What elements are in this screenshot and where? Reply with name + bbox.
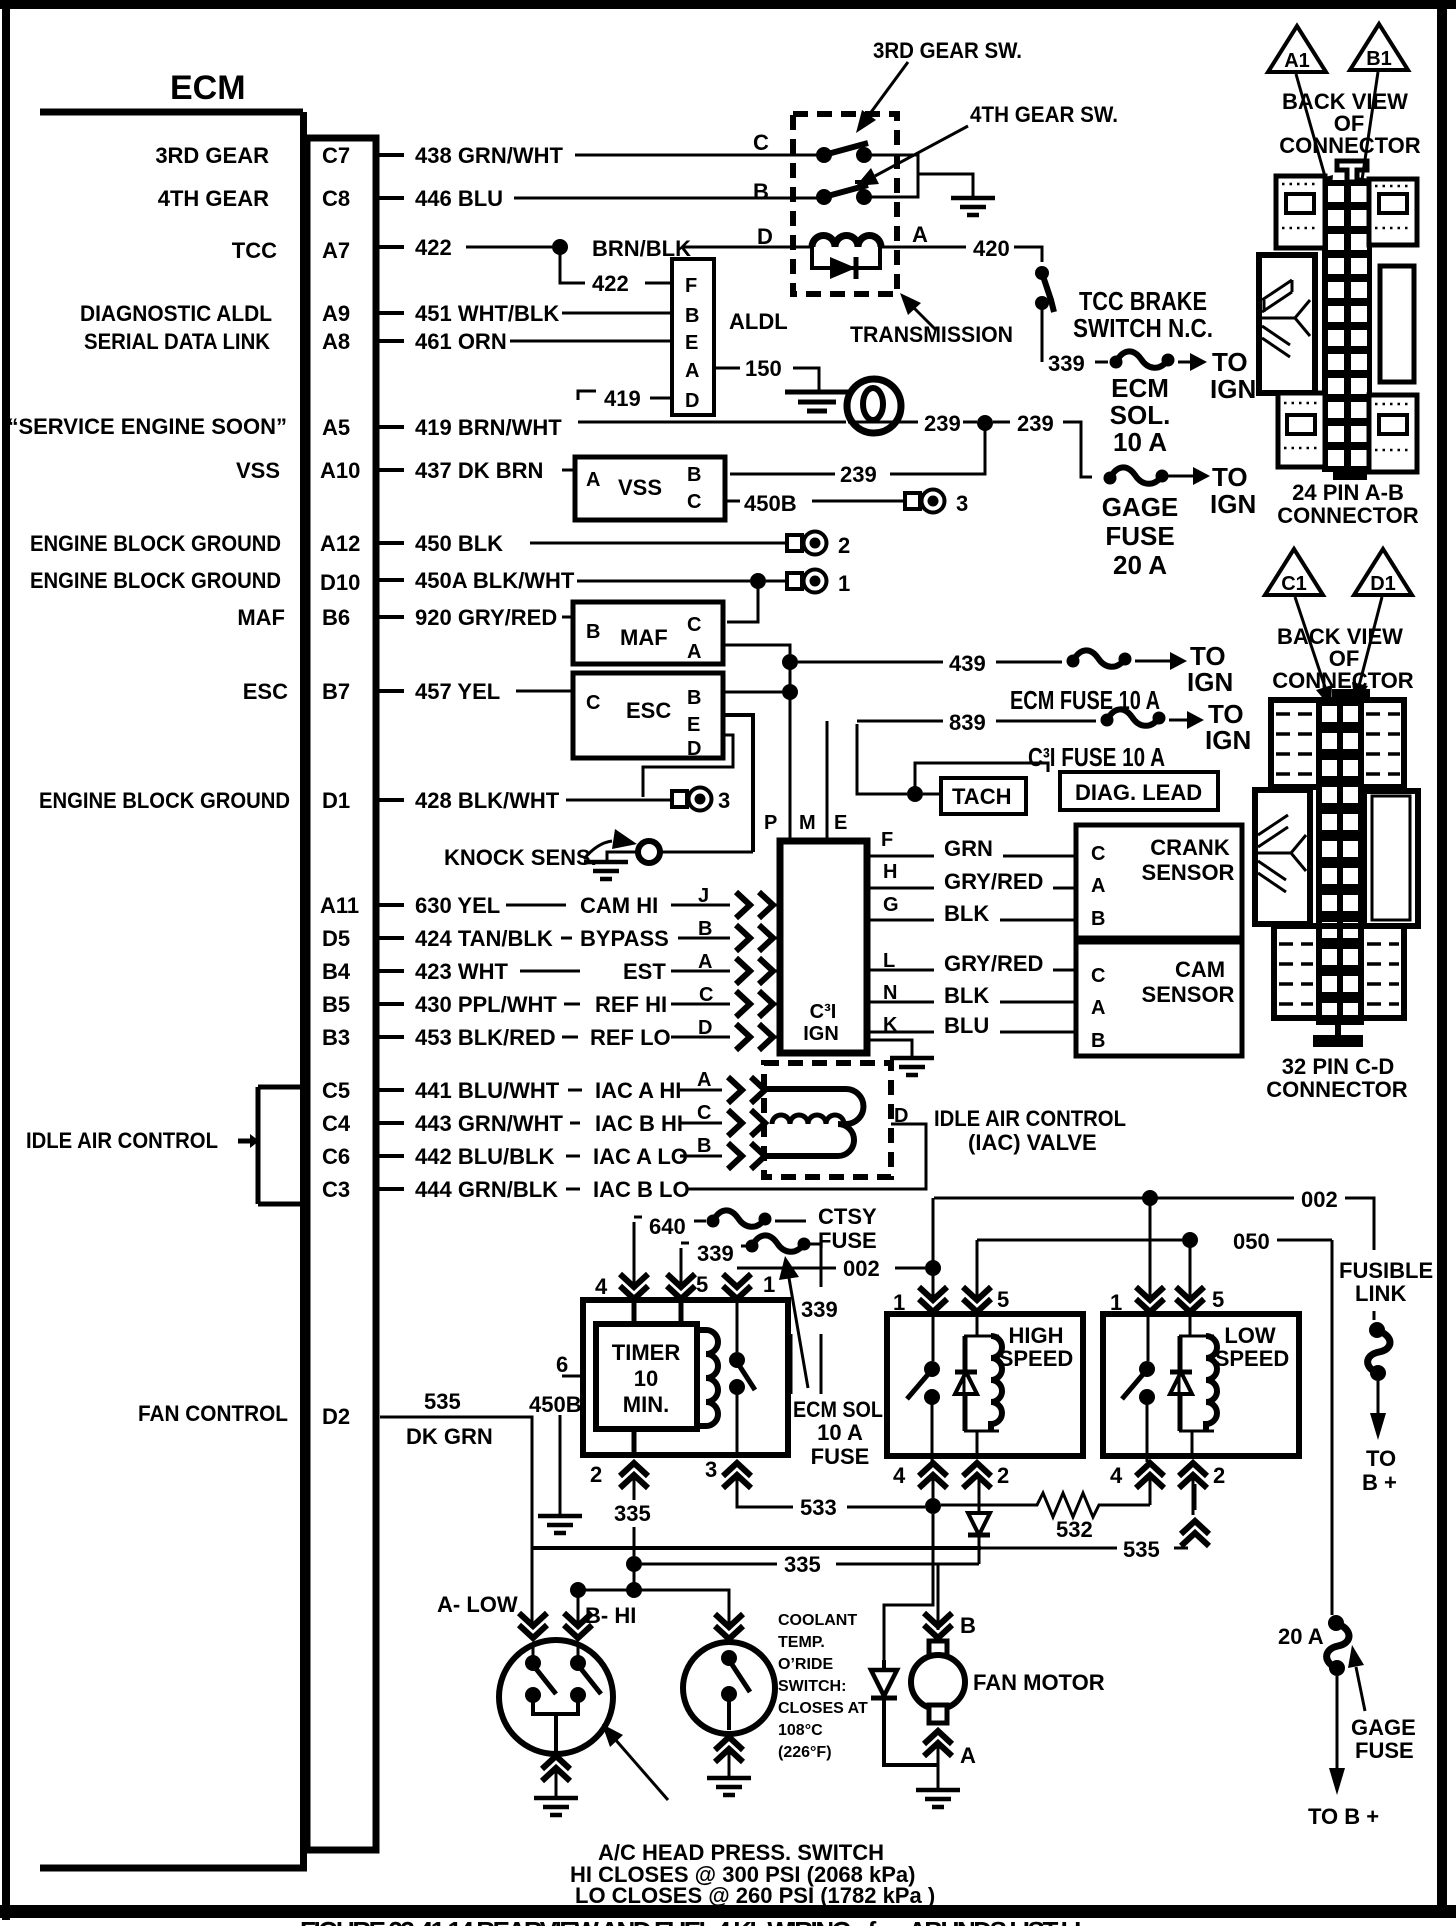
svg-text:D1: D1 <box>322 788 350 813</box>
wire label 423 WHT / EST <box>415 959 666 984</box>
wire 446 BLU pin tick C8 <box>376 196 404 200</box>
label TO IGN (ecm fuse) <box>1187 641 1233 697</box>
svg-text:CONNECTOR: CONNECTOR <box>1279 133 1420 158</box>
wire label 424 TAN/BLK / BYPASS <box>415 926 669 951</box>
svg-text:419 BRN/WHT: 419 BRN/WHT <box>415 415 562 440</box>
ECM box outline <box>40 112 307 1868</box>
ESC pin C <box>586 692 600 714</box>
wire label 428 BLK/WHT <box>415 788 560 813</box>
leader A1 arrow <box>1296 74 1333 198</box>
ALDL connector box <box>672 259 714 415</box>
wire bus node down to C3I M pin <box>789 662 792 838</box>
wire 437 DK BRN pin tick A10 <box>376 468 404 472</box>
wire label 239 right <box>1017 411 1054 436</box>
timer switch <box>729 1300 755 1455</box>
wire label 419 (ALDL) <box>604 386 641 411</box>
wire node to ring 1 <box>766 580 786 583</box>
wire 050 down to low speed 5 <box>1189 1240 1192 1299</box>
fan motor <box>911 1655 965 1709</box>
svg-text:B: B <box>697 1135 711 1157</box>
wire G BLK <box>867 901 1074 926</box>
switch 4th gear <box>816 182 877 205</box>
wire solenoid A to 420 <box>881 246 966 249</box>
svg-text:532: 532 <box>1056 1517 1093 1542</box>
svg-text:DIAG. LEAD: DIAG. LEAD <box>1075 780 1202 805</box>
ALDL pin B <box>685 305 699 327</box>
C3I pin L <box>883 950 895 972</box>
wire B-HI bus to coolant switch <box>578 1590 729 1630</box>
svg-text:CONNECTOR: CONNECTOR <box>1277 503 1418 528</box>
svg-text:450A BLK/WHT: 450A BLK/WHT <box>415 568 575 593</box>
svg-text:4TH GEAR: 4TH GEAR <box>158 186 269 211</box>
svg-text:C6: C6 <box>322 1144 350 1169</box>
svg-text:A: A <box>586 469 600 491</box>
svg-text:C: C <box>753 130 769 155</box>
svg-text:B5: B5 <box>322 992 350 1017</box>
svg-text:MIN.: MIN. <box>623 1392 669 1417</box>
timer pin 4 wire <box>632 1300 637 1324</box>
svg-text:150: 150 <box>745 356 782 381</box>
page border frame bottom <box>0 1905 1456 1918</box>
label TO IGN (ecm sol) <box>1210 347 1256 404</box>
wire label 442 BLU/BLK / IAC A LO <box>415 1144 688 1169</box>
svg-text:A12: A12 <box>320 531 360 556</box>
svg-text:450B: 450B <box>744 491 797 516</box>
wire ESC B to node <box>725 691 782 694</box>
wire label 533 <box>800 1495 837 1520</box>
wire 535 bus <box>532 1546 1117 1550</box>
ESC pin B <box>687 687 701 709</box>
svg-text:IGN: IGN <box>803 1023 839 1045</box>
node ESC B / 439 <box>782 684 798 700</box>
svg-text:ALDL: ALDL <box>729 309 788 334</box>
ALDL pin F <box>685 275 697 297</box>
wire 640 elbow <box>634 1217 642 1286</box>
TACH box <box>941 778 1026 814</box>
wire lamp to 239 <box>901 421 918 424</box>
svg-text:BLK: BLK <box>944 901 989 926</box>
pressure switch left contacts <box>525 1645 556 1703</box>
svg-text:C: C <box>1091 843 1105 865</box>
svg-text:D: D <box>698 1017 712 1039</box>
svg-text:444 GRN/BLK: 444 GRN/BLK <box>415 1177 558 1202</box>
svg-text:VSS: VSS <box>618 475 662 500</box>
svg-text:423 WHT: 423 WHT <box>415 959 508 984</box>
wire 335 bus <box>642 1563 777 1566</box>
VSS box <box>575 457 725 520</box>
wire B-HI down <box>577 1590 580 1628</box>
label TIMER 10 MIN. <box>612 1340 681 1417</box>
label B (transmission) <box>753 179 769 204</box>
svg-text:TO: TO <box>1212 462 1248 492</box>
ECM pin column box <box>307 138 376 1850</box>
svg-text:A: A <box>685 360 699 382</box>
svg-text:“SERVICE ENGINE SOON”: “SERVICE ENGINE SOON” <box>7 414 287 439</box>
svg-text:CAM: CAM <box>1175 957 1225 982</box>
wire label 839 <box>949 710 986 735</box>
svg-text:461 ORN: 461 ORN <box>415 329 507 354</box>
switch TCC brake NC <box>1035 266 1054 362</box>
connector chevron IAC A <box>728 1077 765 1103</box>
wire 422 branch down to ALDL F <box>560 252 585 283</box>
wire 002 bus <box>934 1197 1373 1200</box>
svg-text:C4: C4 <box>322 1111 351 1136</box>
svg-text:451 WHT/BLK: 451 WHT/BLK <box>415 301 559 326</box>
ground transmission <box>951 198 995 215</box>
svg-text:CTSY: CTSY <box>818 1204 877 1229</box>
wire label 461 ORN <box>415 329 507 354</box>
svg-text:B: B <box>753 179 769 204</box>
24 pin connector center spine <box>1322 180 1372 472</box>
svg-text:441 BLU/WHT: 441 BLU/WHT <box>415 1078 560 1103</box>
label 4 (high) <box>893 1463 906 1488</box>
ESC box <box>573 673 723 758</box>
label HIGH SPEED <box>999 1323 1074 1371</box>
wire high speed 4 down <box>932 1477 935 1498</box>
ESC pin E <box>687 714 700 736</box>
svg-text:SERIAL DATA LINK: SERIAL DATA LINK <box>84 329 270 354</box>
wire 239 VSS B segment <box>730 473 835 476</box>
svg-text:B4: B4 <box>322 959 351 984</box>
svg-text:10 A: 10 A <box>817 1420 863 1445</box>
svg-text:C1: C1 <box>1281 573 1307 595</box>
low speed coil branch <box>1179 1314 1214 1456</box>
wire 438 to transmission C switch <box>575 154 818 157</box>
CAM SENSOR box <box>1076 942 1242 1056</box>
wire label 535 (near chevron) <box>1120 1510 1126 1535</box>
label TCC BRAKE SWITCH N.C. <box>1073 286 1213 343</box>
C3I IGN box <box>780 841 867 1053</box>
wire D2 fan control <box>380 1417 532 1548</box>
label A (transmission) <box>912 222 928 247</box>
wire label 535 (D2) <box>424 1389 461 1414</box>
wire A-LOW feed <box>531 1548 534 1628</box>
wire label 150 <box>745 356 782 381</box>
wire 430 PPL/WHT pin tick B5 <box>376 1002 404 1006</box>
svg-text:A7: A7 <box>322 238 350 263</box>
HIGH SPEED relay box <box>887 1314 1083 1456</box>
C3I IGN label <box>803 1001 839 1045</box>
wire 002 down to low speed 1 <box>1149 1198 1152 1299</box>
arrow TO IGN (ecm fuse) <box>1135 652 1187 670</box>
wire N BLK <box>867 983 1074 1008</box>
svg-text:C: C <box>697 1102 711 1124</box>
svg-text:10: 10 <box>634 1366 658 1391</box>
pin A5 <box>322 415 350 440</box>
svg-text:C: C <box>699 984 713 1006</box>
pressure switch right contacts <box>570 1645 601 1703</box>
svg-text:335: 335 <box>784 1552 821 1577</box>
svg-text:2: 2 <box>1213 1463 1225 1488</box>
CAM SENSOR label <box>1142 957 1235 1007</box>
svg-text:B: B <box>687 687 701 709</box>
CRANK SENSOR box <box>1076 825 1242 938</box>
page border frame top <box>0 0 1456 9</box>
connector chevron J <box>736 892 780 918</box>
svg-text:IGN: IGN <box>1210 374 1256 404</box>
arrow fusible link to B+ <box>1370 1381 1386 1440</box>
svg-text:CRANK: CRANK <box>1150 835 1230 860</box>
wire label 451 WHT/BLK <box>415 301 559 326</box>
label DIAGNOSTIC ALDL <box>80 301 272 326</box>
ground pressure switch <box>534 1798 578 1815</box>
node 533 <box>925 1498 941 1514</box>
svg-text:J: J <box>698 885 709 907</box>
CAM SENSOR pins C A B <box>1091 965 1105 1052</box>
wire label 443 GRN/WHT / IAC B HI <box>415 1111 683 1136</box>
connector chevron A <box>736 958 780 984</box>
svg-text:F: F <box>685 275 697 297</box>
ALDL pin D <box>685 390 699 412</box>
wire knock to ground <box>607 852 637 860</box>
svg-text:239: 239 <box>840 462 877 487</box>
solenoid TCC diode <box>812 247 880 279</box>
pin A8 <box>322 329 350 354</box>
svg-text:C3: C3 <box>322 1177 350 1202</box>
wire 002 corner to fusible link <box>1364 1198 1374 1320</box>
label 4TH GEAR SW. <box>970 102 1118 127</box>
arrow TO IGN (c3i fuse) <box>1169 711 1204 729</box>
label LOW SPEED <box>1215 1323 1290 1371</box>
wire diode to 335 bus <box>978 1535 979 1564</box>
label 24 PIN A-B CONNECTOR <box>1277 480 1418 528</box>
ground fan motor <box>916 1790 960 1807</box>
wire 150 from ALDL A <box>714 367 740 370</box>
wire label 339 (ecm sol) <box>801 1297 838 1322</box>
wire 457 YEL pin tick B7 <box>376 689 404 693</box>
svg-text:A1: A1 <box>1284 50 1310 72</box>
wire bracket to ground <box>918 174 973 196</box>
wire 533 to node <box>847 1506 925 1509</box>
pin D10 <box>320 570 360 595</box>
ALDL label <box>729 309 788 334</box>
svg-text:FIGURE 23-41 14 REARVIEW AND: FIGURE 23-41 14 REARVIEW AND FUEL 4 KL W… <box>300 1916 1090 1926</box>
svg-text:419: 419 <box>604 386 641 411</box>
label CTSY FUSE <box>818 1204 877 1253</box>
svg-text:TACH: TACH <box>952 784 1011 809</box>
svg-text:FUSE: FUSE <box>818 1228 877 1253</box>
resistor 532 <box>941 1493 1150 1517</box>
label 5 (timer) <box>696 1272 708 1297</box>
svg-text:IAC B LO: IAC B LO <box>593 1177 690 1202</box>
svg-text:D2: D2 <box>322 1404 350 1429</box>
wire 239 to node <box>963 421 977 424</box>
label ENGINE BLOCK GROUND D10 <box>30 568 281 593</box>
svg-text:839: 839 <box>949 710 986 735</box>
wire 335 bus right segment <box>836 1563 978 1566</box>
pin label D (ref lo) <box>698 1017 712 1039</box>
wire H GRY/RED <box>867 869 1074 894</box>
wire 150 elbow to ground <box>793 368 819 390</box>
svg-text:A11: A11 <box>320 893 359 918</box>
svg-text:D: D <box>685 390 699 412</box>
C3I pin K <box>883 1014 898 1036</box>
ALDL pin E <box>685 332 698 354</box>
wire EST to chevron A <box>671 970 730 973</box>
wire 050 down to high speed 5 <box>976 1240 979 1299</box>
coolant switch contacts <box>721 1650 750 1730</box>
svg-text:438 GRN/WHT: 438 GRN/WHT <box>415 143 563 168</box>
svg-text:IGN: IGN <box>1205 725 1251 755</box>
pin C7 <box>322 143 350 168</box>
wire tach tap from 839 <box>857 724 907 794</box>
leader 4th gear sw arrow <box>856 126 968 186</box>
fuse ECM 10A <box>1067 650 1132 667</box>
wire 339 fuse elbow down <box>804 1244 821 1287</box>
svg-text:B: B <box>698 918 712 940</box>
label 4 (timer) <box>595 1274 608 1299</box>
svg-text:630 YEL: 630 YEL <box>415 893 500 918</box>
wire label 339 (tcc) <box>1048 351 1085 376</box>
label MAF <box>237 605 285 630</box>
svg-text:A8: A8 <box>322 329 350 354</box>
ESC label <box>626 698 671 723</box>
24 pin connector mid-left block <box>1259 255 1315 393</box>
24 pin connector top-right block <box>1369 179 1417 245</box>
high speed coil branch <box>964 1314 999 1456</box>
chevron fan motor A <box>924 1731 952 1756</box>
svg-text:335: 335 <box>614 1501 651 1526</box>
svg-text:SENSOR: SENSOR <box>1142 982 1235 1007</box>
wire 535 return from relays <box>1118 1547 1121 1550</box>
pin C3 <box>322 1177 350 1202</box>
svg-text:TCC BRAKE: TCC BRAKE <box>1079 286 1207 316</box>
24 pin connector top tab <box>1337 161 1367 182</box>
32 pin connector mid-left block <box>1255 790 1310 924</box>
bottom caption (cut off) <box>300 1916 1090 1926</box>
svg-text:5: 5 <box>696 1272 708 1297</box>
wire 422 into ALDL F pin <box>645 282 672 285</box>
ring terminal 2 <box>787 532 827 555</box>
label BACK VIEW OF CONNECTOR (top) <box>1279 89 1420 158</box>
wire 239 branch down-left to VSS B <box>890 429 985 474</box>
label TO B+ (bottom) <box>1308 1804 1379 1829</box>
svg-text:C: C <box>586 692 600 714</box>
svg-text:2: 2 <box>838 533 850 558</box>
svg-text:B: B <box>685 305 699 327</box>
svg-text:E: E <box>685 332 698 354</box>
node 335 lower <box>626 1582 642 1598</box>
label 3RD GEAR SW. <box>873 38 1022 63</box>
chevron B-HI <box>564 1613 592 1638</box>
svg-text:428 BLK/WHT: 428 BLK/WHT <box>415 788 560 813</box>
svg-text:B1: B1 <box>1366 48 1392 70</box>
pin label J <box>698 885 709 907</box>
svg-text:EST: EST <box>623 959 666 984</box>
svg-text:ECM SOL: ECM SOL <box>793 1397 883 1422</box>
wire 442 BLU/BLK pin tick C6 <box>376 1154 404 1158</box>
32 pin connector top tab <box>1332 689 1370 700</box>
svg-text:ESC: ESC <box>243 679 288 704</box>
24 pin connector top-left block <box>1276 176 1325 248</box>
wire 428 BLK/WHT pin tick D1 <box>376 798 404 802</box>
svg-text:424 TAN/BLK: 424 TAN/BLK <box>415 926 553 951</box>
svg-text:B7: B7 <box>322 679 350 704</box>
leader B1 arrow <box>1355 72 1378 200</box>
wire 450B to ground <box>559 1415 562 1514</box>
svg-text:ENGINE BLOCK GROUND: ENGINE BLOCK GROUND <box>30 568 281 593</box>
wire IAC A LO to chevron <box>680 1155 722 1158</box>
svg-text:A: A <box>698 951 712 973</box>
label E <box>834 812 847 834</box>
svg-text:C: C <box>1091 965 1105 987</box>
svg-text:TO: TO <box>1366 1446 1396 1471</box>
label IDLE AIR CONTROL (IAC) VALVE <box>934 1106 1126 1155</box>
solenoid TCC coil <box>812 236 881 247</box>
pin D2 <box>322 1404 350 1429</box>
wire 002 to timer chevron 1 <box>737 1267 836 1270</box>
wire node to TACH box <box>923 793 941 796</box>
svg-text:GRN: GRN <box>944 836 993 861</box>
wire 535 to chevron <box>1174 1547 1188 1550</box>
diode 535 (hs 2) <box>968 1513 990 1535</box>
svg-text:D10: D10 <box>320 570 360 595</box>
ring terminal 1 <box>787 570 827 593</box>
label 4 (low) <box>1110 1463 1123 1488</box>
svg-text:339: 339 <box>1048 351 1085 376</box>
page border frame right <box>1437 0 1447 1914</box>
svg-text:IGN: IGN <box>1210 489 1256 519</box>
pin C4 <box>322 1111 351 1136</box>
idle air control bracket <box>238 1087 303 1204</box>
wire high speed 2 down to diode <box>978 1477 981 1513</box>
svg-text:050: 050 <box>1233 1229 1270 1254</box>
arrow TO IGN (ecm sol) <box>1178 353 1207 371</box>
svg-text:457 YEL: 457 YEL <box>415 679 500 704</box>
pin label B (bypass) <box>698 918 712 940</box>
svg-text:BYPASS: BYPASS <box>580 926 669 951</box>
ring terminal 3 (450B) <box>905 490 945 513</box>
svg-text:4: 4 <box>595 1274 608 1299</box>
svg-text:M: M <box>799 812 816 834</box>
wire 437 into VSS A <box>562 469 575 472</box>
label ECM SOL 10 A FUSE <box>793 1397 883 1469</box>
label ESC <box>243 679 288 704</box>
wire CAM HI to chevron J <box>671 904 730 907</box>
svg-text:SWITCH:: SWITCH: <box>778 1678 846 1695</box>
ring terminal 3 (428) <box>672 788 712 811</box>
label TRANSMISSION <box>850 322 1013 347</box>
wire 533 node down to diode jog <box>884 1514 933 1660</box>
ground 450B <box>538 1516 582 1533</box>
node 450A <box>750 573 766 589</box>
arrow gage fuse to B+ <box>1329 1676 1345 1795</box>
wire diode down to fan motor A <box>884 1660 938 1765</box>
leader transmission arrow <box>900 293 936 330</box>
svg-text:443 GRN/WHT: 443 GRN/WHT <box>415 1111 563 1136</box>
ground C3I <box>890 1058 934 1075</box>
svg-text:ESC: ESC <box>626 698 671 723</box>
low speed switch <box>1122 1314 1155 1462</box>
wire 424 TAN/BLK pin tick D5 <box>376 936 404 940</box>
label FAN CONTROL <box>138 1401 288 1426</box>
svg-text:ECM: ECM <box>1111 373 1169 403</box>
wire 839 elbow down to C3I E pin <box>826 721 829 838</box>
24 pin connector bottom-right block <box>1369 395 1417 472</box>
wire 423 WHT pin tick B4 <box>376 969 404 973</box>
node tach <box>907 786 923 802</box>
svg-text:10 A: 10 A <box>1113 427 1167 457</box>
wire 428 to ring 3b <box>566 799 673 802</box>
fuse gage 20A vertical <box>1327 1615 1349 1676</box>
svg-text:5: 5 <box>997 1287 1009 1312</box>
fuse ECM SOL 10A <box>1110 351 1175 368</box>
ground coolant switch <box>707 1778 751 1795</box>
svg-text:C5: C5 <box>322 1078 350 1103</box>
switch 3rd gear <box>816 143 872 163</box>
label SERVICE ENGINE SOON <box>7 414 287 439</box>
svg-text:IAC B HI: IAC B HI <box>595 1111 683 1136</box>
